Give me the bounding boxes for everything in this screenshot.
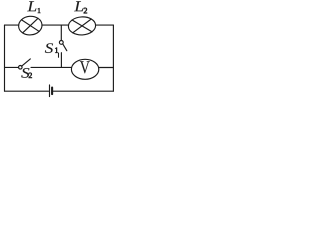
- wire voltmeter to right rail: [99, 67, 114, 69]
- switch S2 blade: [22, 59, 31, 66]
- wire S1 branch upper: [60, 25, 62, 40]
- label S2 letter: [21, 68, 29, 78]
- lamp L1: [18, 15, 43, 36]
- wire S1 branch lower: [60, 53, 62, 68]
- wire middle segment: [31, 66, 71, 68]
- switch S1 pivot: [59, 41, 63, 45]
- label L2 subscript 2: [84, 8, 87, 13]
- switch S2 stub: [5, 66, 19, 68]
- battery long plate: [49, 85, 51, 97]
- label S2 subscript 2: [29, 73, 32, 78]
- wire bottom-right segment: [53, 90, 113, 92]
- label L1 subscript 1: [38, 8, 41, 13]
- label S1 letter: [45, 43, 53, 53]
- switch S1 contact tick: [58, 53, 60, 57]
- battery short plate: [51, 88, 53, 95]
- voltmeter letter V: [80, 61, 90, 73]
- wire top-left segment: [5, 24, 19, 26]
- wire top-middle segment: [42, 24, 69, 26]
- wire top-right segment: [96, 24, 114, 26]
- wire bottom-left segment: [5, 90, 49, 92]
- voltmeter U1 body: [71, 59, 98, 79]
- label S1 subscript 1: [55, 48, 58, 53]
- switch S2 pivot: [19, 66, 23, 70]
- label L2 letter: [74, 1, 83, 11]
- wire left rail: [4, 25, 6, 91]
- lamp L2: [68, 16, 96, 35]
- wire right rail: [112, 25, 114, 91]
- label L1 letter: [27, 1, 36, 11]
- switch S1 blade: [63, 44, 67, 51]
